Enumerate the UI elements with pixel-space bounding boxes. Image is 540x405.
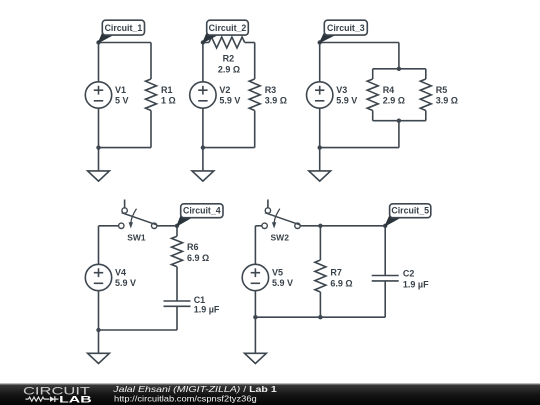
svg-text:2.9 Ω: 2.9 Ω (383, 96, 405, 106)
svg-text:R6: R6 (187, 242, 199, 252)
svg-text:1.9 µF: 1.9 µF (194, 305, 220, 315)
svg-text:3.9 Ω: 3.9 Ω (436, 96, 458, 106)
svg-text:Circuit_3: Circuit_3 (327, 23, 365, 33)
svg-text:3.9 Ω: 3.9 Ω (265, 96, 287, 106)
svg-text:Circuit_2: Circuit_2 (209, 23, 247, 33)
svg-text:1 Ω: 1 Ω (161, 96, 176, 106)
svg-text:Circuit_1: Circuit_1 (105, 23, 143, 33)
svg-text:R2: R2 (223, 54, 235, 64)
svg-text:6.9 Ω: 6.9 Ω (330, 279, 352, 289)
svg-text:5.9 V: 5.9 V (219, 96, 240, 106)
svg-text:Circuit_4: Circuit_4 (183, 206, 221, 216)
svg-text:V1: V1 (115, 85, 126, 95)
svg-text:Jalal Ehsani (MIGIT-ZILLA) / L: Jalal Ehsani (MIGIT-ZILLA) / Lab 1 (112, 384, 277, 394)
svg-text:V5: V5 (272, 268, 283, 278)
svg-text:2.9 Ω: 2.9 Ω (218, 65, 240, 75)
svg-text:R1: R1 (161, 85, 173, 95)
svg-text:Circuit_5: Circuit_5 (391, 206, 429, 216)
svg-text:5 V: 5 V (115, 96, 129, 106)
svg-text:C1: C1 (194, 295, 206, 305)
svg-text:R3: R3 (265, 85, 277, 95)
svg-text:LAB: LAB (59, 394, 92, 405)
svg-text:V2: V2 (219, 85, 230, 95)
svg-text:SW2: SW2 (271, 233, 290, 243)
svg-text:6.9 Ω: 6.9 Ω (187, 253, 209, 263)
svg-text:R7: R7 (330, 268, 342, 278)
svg-text:5.9 V: 5.9 V (272, 278, 293, 288)
svg-text:1.9 µF: 1.9 µF (403, 279, 429, 289)
svg-text:C2: C2 (403, 269, 415, 279)
svg-text:5.9 V: 5.9 V (336, 96, 357, 106)
svg-text:R4: R4 (383, 85, 395, 95)
svg-text:V3: V3 (336, 85, 347, 95)
svg-text:5.9 V: 5.9 V (115, 278, 136, 288)
svg-text:http://circuitlab.com/cspnsf2t: http://circuitlab.com/cspnsf2tyz36g (114, 393, 257, 403)
svg-text:R5: R5 (436, 85, 448, 95)
svg-text:SW1: SW1 (127, 233, 146, 243)
svg-text:V4: V4 (115, 268, 126, 278)
